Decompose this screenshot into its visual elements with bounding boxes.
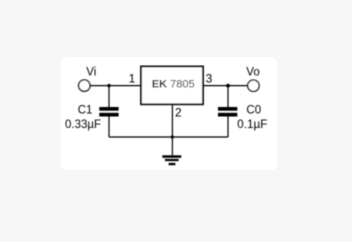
svg-text:0.1µF: 0.1µF (237, 119, 267, 131)
svg-text:EK 7805: EK 7805 (152, 79, 195, 91)
svg-text:0.33µF: 0.33µF (65, 119, 101, 131)
svg-text:C1: C1 (78, 105, 93, 117)
svg-text:1: 1 (129, 72, 136, 86)
svg-text:Vi: Vi (86, 66, 96, 78)
svg-text:3: 3 (206, 72, 213, 86)
svg-text:C0: C0 (246, 105, 261, 117)
svg-text:2: 2 (175, 106, 182, 120)
svg-text:Vo: Vo (246, 67, 259, 79)
